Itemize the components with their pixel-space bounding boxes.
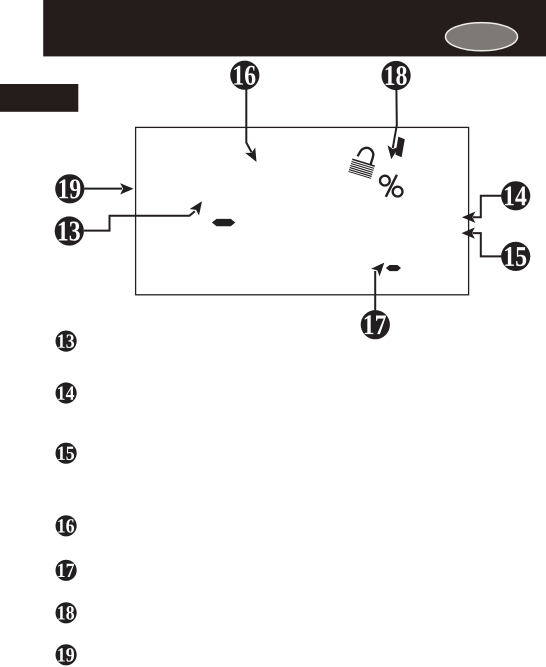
padlock icon (open)	[348, 145, 379, 179]
list callout circle 14	[56, 382, 77, 403]
list callout circle 18	[56, 602, 77, 623]
arrowhead of 17 wire	[371, 259, 388, 277]
diagram callout circle 17	[361, 310, 390, 339]
arrowhead of 16 wire	[245, 147, 261, 164]
list callout circle 19	[56, 644, 77, 665]
wire from 17	[374, 271, 376, 311]
wire from 15	[473, 233, 502, 256]
arrowhead of 14 wire	[462, 212, 475, 223]
arrowhead of 18 wire	[386, 145, 399, 160]
diagram callout circle 14	[501, 181, 530, 210]
segment dash pointed by 13	[212, 219, 235, 226]
diagram callout circle 13	[55, 216, 84, 245]
list callout circle 15	[56, 443, 77, 464]
arrowhead of 13 wire	[190, 198, 207, 216]
header ellipse button	[446, 23, 518, 51]
list callout circle 13	[56, 331, 77, 352]
percent symbol	[380, 175, 403, 197]
wire from 18	[393, 90, 397, 149]
arrowhead of 15 wire	[462, 227, 475, 238]
list callout circle 17	[56, 560, 77, 581]
thick slanted indicator bar (pointed by 18)	[395, 137, 404, 158]
left section tab bar	[0, 84, 78, 112]
wire from 13	[84, 211, 195, 230]
LCD display outline rectangle	[136, 127, 469, 294]
diagram callout circle 15	[501, 242, 530, 271]
header title bar	[43, 0, 546, 56]
diagram callout circle 16	[230, 61, 259, 90]
wire from 19	[85, 188, 123, 190]
list callout circle 16	[56, 515, 77, 536]
arrowhead of 19 wire	[120, 183, 133, 194]
wire from 14	[473, 196, 502, 217]
segment dash pointed by 17	[386, 265, 401, 271]
wire from 16	[246, 90, 251, 153]
diagram callout circle 18	[382, 61, 411, 90]
diagram callout circle 19	[55, 174, 84, 203]
